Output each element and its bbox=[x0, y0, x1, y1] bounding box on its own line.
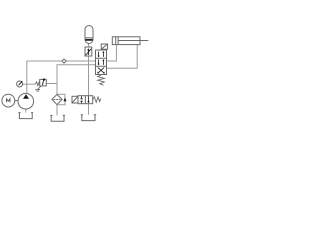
motor label M bbox=[7, 99, 10, 103]
filter bypass check valve bbox=[64, 97, 67, 101]
wire: bleed valve to tank bbox=[88, 104, 90, 115]
wire: cylinder rod-end line bbox=[107, 45, 138, 69]
relief valve drain bbox=[38, 86, 41, 89]
wire: pump pressure riser bbox=[26, 61, 28, 94]
DV1 mid-cell arrows bbox=[98, 59, 105, 65]
tank T3 (bleed valve) bbox=[81, 115, 96, 121]
wire: main pressure line A bbox=[27, 60, 96, 62]
relief valve RV1 bbox=[35, 78, 46, 86]
check valve CV1 (inline diamond) bbox=[62, 59, 66, 63]
V3 flow-cell arrow bbox=[87, 96, 89, 103]
wire: accumulator branch to line A bbox=[88, 56, 90, 61]
wire: motor-pump shaft bbox=[15, 100, 18, 102]
wire: filter bypass loop bbox=[57, 94, 65, 105]
wire: return line B bbox=[57, 65, 96, 95]
bleed valve V3 (2/2 solenoid) bbox=[78, 96, 93, 104]
pressure gauge G1 bbox=[17, 81, 23, 87]
wire: filter to tank bbox=[56, 105, 58, 116]
wire: cylinder cap-end line bbox=[107, 45, 117, 61]
tank T2 (filter return) bbox=[50, 115, 65, 121]
wire: pump suction bbox=[25, 109, 27, 113]
accumulator A1 bbox=[85, 26, 93, 44]
wire: relief valve outlet to return drop bbox=[46, 83, 57, 85]
DV1 top-cell arrows bbox=[98, 51, 105, 57]
pump P1 bbox=[18, 93, 34, 109]
wire: accumulator stem bbox=[88, 43, 90, 47]
relief drain tank bbox=[35, 89, 40, 91]
wire: accumulator bleed line bbox=[88, 61, 90, 96]
accumulator isolator valve V2 bbox=[85, 47, 92, 56]
motor M1 bbox=[2, 94, 15, 107]
DV1 return spring bbox=[98, 75, 105, 85]
V3 solenoid bbox=[72, 96, 78, 103]
wire: gauge stub bbox=[23, 83, 27, 85]
tank T1 (pump suction) bbox=[18, 113, 33, 119]
V3 spring bbox=[93, 97, 101, 103]
filter F1 bbox=[52, 94, 62, 104]
wire: relief valve feed bbox=[27, 83, 35, 85]
directional valve DV1 (4/3 solenoid) bbox=[96, 50, 107, 75]
DV1 bottom-cell crossed arrows bbox=[97, 67, 105, 73]
cylinder CYL1 bbox=[112, 37, 148, 45]
V3 blocked-cell mark bbox=[80, 96, 82, 103]
DV1 solenoid bbox=[101, 44, 107, 49]
